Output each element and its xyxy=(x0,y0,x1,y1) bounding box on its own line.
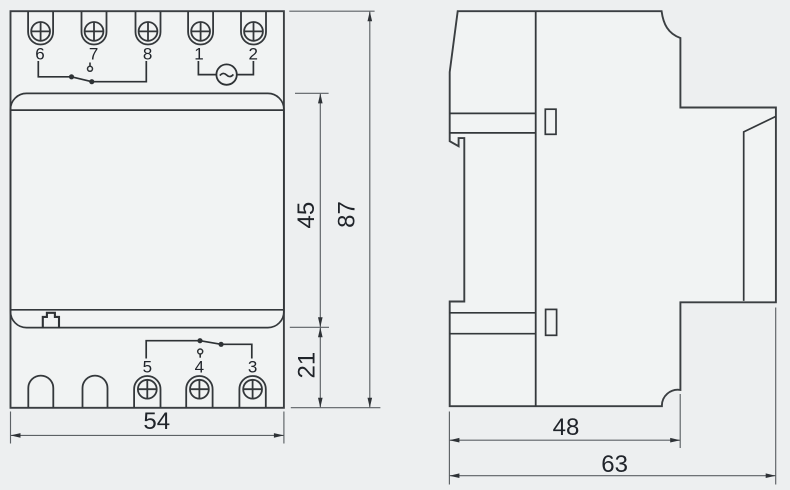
screw 6 xyxy=(31,22,50,41)
extension line 63 right xyxy=(775,308,777,485)
dimension line 63 xyxy=(449,475,775,477)
svg-text:3: 3 xyxy=(248,357,257,376)
wire to 3 xyxy=(221,344,252,358)
dimension line 48 xyxy=(449,439,680,441)
device body outline xyxy=(11,11,284,408)
extension line 87 top xyxy=(289,10,374,12)
din area line top 1 xyxy=(450,112,536,114)
switch contact circle 7 xyxy=(88,63,93,72)
arrow 21 down xyxy=(318,398,323,408)
svg-text:8: 8 xyxy=(143,45,152,64)
svg-text:1: 1 xyxy=(194,45,203,64)
latch top xyxy=(545,109,556,134)
terminal housing 2 xyxy=(241,11,266,44)
wire to 8 xyxy=(92,61,147,82)
din area line bottom 1 xyxy=(449,312,535,314)
junction dot xyxy=(89,79,94,84)
face bottom crease xyxy=(11,309,284,311)
junction dot xyxy=(219,342,224,347)
terminal housing 3 xyxy=(239,376,265,408)
face top crease xyxy=(11,109,284,111)
arrow 45 up xyxy=(318,93,323,103)
wire from 6 xyxy=(38,61,71,77)
rear chamfer edge xyxy=(744,116,776,301)
empty arch 1 xyxy=(28,376,53,408)
dimension line 87 xyxy=(369,12,371,408)
svg-text:63: 63 xyxy=(601,451,628,478)
terminal housing 6 xyxy=(28,11,53,44)
dimension line 45 xyxy=(319,94,321,327)
extension line 48 right xyxy=(679,394,681,448)
screw 1 xyxy=(191,22,210,41)
dimension line 21 xyxy=(319,328,321,408)
extension line 54 left xyxy=(10,412,12,444)
dimension line 54 xyxy=(11,434,284,436)
switch blade 6-8 xyxy=(72,77,92,82)
terminal housing 5 xyxy=(134,376,160,408)
extension line 45 top xyxy=(295,92,329,94)
junction dot xyxy=(69,74,74,79)
terminal housing 7 xyxy=(82,11,107,44)
arrow 45 down xyxy=(318,317,323,327)
extension line 45/21 mid xyxy=(290,326,329,328)
screw 2 xyxy=(244,22,263,41)
svg-text:21: 21 xyxy=(294,352,321,379)
junction dot xyxy=(197,338,202,343)
arrow 54 left xyxy=(11,433,21,438)
din area line bottom 2 xyxy=(449,333,535,335)
screw 7 xyxy=(85,22,104,41)
arrow 87 down xyxy=(368,398,373,408)
screw 8 xyxy=(139,22,158,41)
switch blade 5-3 xyxy=(200,341,221,345)
din area line top 2 xyxy=(450,132,536,134)
arrow 48 left xyxy=(449,438,459,443)
interlock tab xyxy=(43,313,59,329)
svg-text:48: 48 xyxy=(553,414,580,441)
svg-text:6: 6 xyxy=(35,45,44,64)
extension line 87/21 bottom xyxy=(291,407,381,409)
arrow 48 right xyxy=(670,438,680,443)
arrow 87 up xyxy=(368,11,373,21)
terminal housing 4 xyxy=(186,376,212,408)
svg-text:5: 5 xyxy=(143,357,152,376)
screw 4 xyxy=(190,380,209,399)
svg-text:7: 7 xyxy=(89,45,98,64)
svg-text:2: 2 xyxy=(248,45,257,64)
terminal housing 1 xyxy=(188,11,213,44)
wire from 5 xyxy=(146,341,200,359)
svg-text:54: 54 xyxy=(143,408,170,435)
front/rear divider xyxy=(535,11,537,406)
svg-text:45: 45 xyxy=(293,202,320,229)
front face plate xyxy=(11,93,284,327)
switch contact circle 4 xyxy=(198,349,203,358)
terminal housing 8 xyxy=(136,11,161,44)
svg-text:87: 87 xyxy=(334,201,361,228)
screw 5 xyxy=(138,380,157,399)
arrow 63 left xyxy=(449,473,459,478)
side profile outline xyxy=(450,11,776,406)
arrow 21 up xyxy=(318,327,323,337)
empty arch 2 xyxy=(83,376,108,408)
arrow 54 right xyxy=(274,433,284,438)
AC source symbol xyxy=(216,64,236,84)
wire from 1 xyxy=(198,61,216,75)
wire to 2 xyxy=(237,61,254,75)
arrow 63 right xyxy=(766,473,776,478)
extension line 54 right xyxy=(283,412,285,444)
svg-text:4: 4 xyxy=(195,357,204,376)
screw 3 xyxy=(243,380,262,399)
extension line 48/63 left xyxy=(448,412,450,485)
latch bottom xyxy=(546,309,557,335)
